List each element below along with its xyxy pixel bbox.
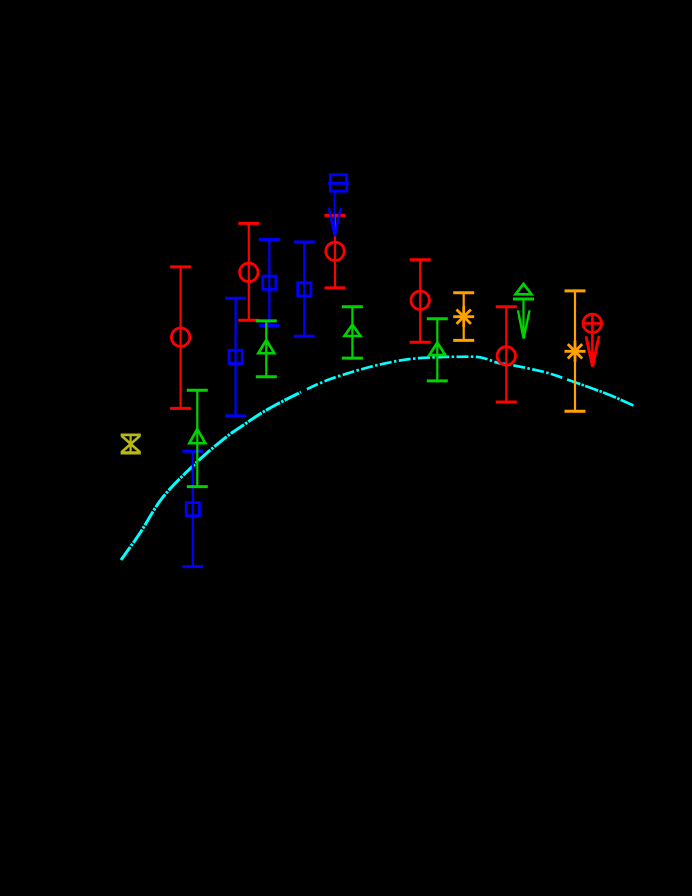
blue upper limit: square marker with cap and down arrow — [328, 175, 349, 236]
red point z1 error bar — [170, 267, 191, 409]
blue point b1 error bar — [182, 451, 203, 566]
red point z4 error bar — [410, 260, 431, 343]
blue b2 square marker — [229, 350, 242, 363]
blue b4 square marker — [298, 283, 311, 296]
orange point o1 error bar — [453, 293, 474, 341]
green g4 triangle marker — [429, 343, 445, 356]
red point z3 error bar — [325, 215, 346, 288]
red upper limit: circle-plus marker with down arrow — [582, 313, 603, 366]
green point g1 error bar — [187, 390, 208, 486]
red z4 circle marker — [411, 291, 429, 309]
blue b3 square marker — [263, 276, 276, 289]
olive cross data point with caps — [121, 435, 141, 453]
red z2 circle marker — [240, 263, 258, 281]
red z1 circle marker — [171, 328, 189, 346]
red point z2 error bar — [238, 223, 259, 320]
green g3 triangle marker — [344, 325, 360, 336]
blue point b2 error bar — [225, 298, 246, 416]
red point z5 error bar — [496, 307, 517, 402]
orange o1 asterisk marker — [453, 306, 474, 327]
red z3 circle marker — [326, 242, 344, 260]
orange point o2 error bar — [565, 291, 586, 411]
red z5 circle marker — [497, 347, 515, 365]
orange o2 asterisk marker — [565, 341, 586, 362]
green g2 triangle marker — [258, 340, 274, 353]
green point g4 error bar — [427, 319, 448, 381]
green g1 triangle marker — [189, 429, 205, 443]
green point g3 error bar — [342, 307, 363, 358]
model curve (cyan dash-dot) — [121, 392, 301, 560]
blue b1 square marker — [186, 503, 199, 516]
green upper limit: triangle marker with cap and down arrow — [513, 284, 534, 339]
green point g2 error bar — [256, 321, 277, 377]
blue point b4 error bar — [294, 242, 315, 336]
blue point b3 error bar — [259, 240, 280, 326]
